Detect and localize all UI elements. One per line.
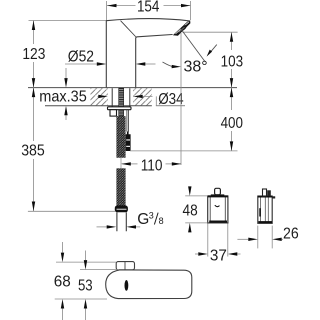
inner panel lines (260, 196, 268, 223)
svg-text:110: 110 (141, 157, 163, 174)
faucet body right edge and spout underside (136, 35, 173, 88)
svg-text:37: 37 (210, 247, 227, 264)
dark dash on left (259, 208, 261, 216)
svg-text:400: 400 (221, 115, 243, 132)
dim line 400 (231, 88, 233, 151)
ext line right (190, 1, 192, 20)
svg-text:53: 53 (78, 278, 93, 295)
svg-text:38°: 38° (184, 58, 208, 75)
38deg diagonal stream line (182, 31, 205, 63)
svg-text:123: 123 (22, 46, 45, 63)
vertical ref line from spout (180, 33, 182, 165)
inner wall lines (210, 197, 225, 223)
plug side rects (263, 189, 267, 196)
svg-text:385: 385 (21, 143, 45, 160)
plug nub (215, 188, 221, 194)
plan main outline (106, 270, 192, 299)
plan sensor oval (125, 280, 129, 291)
head crease line (121, 21, 136, 37)
svg-text:154: 154 (137, 0, 160, 15)
hose break centerline (120, 158, 122, 168)
thick bottom edge (258, 221, 272, 223)
arrowheads 154 (107, 4, 117, 7)
threaded rod below washer (119, 110, 124, 117)
text O34 background (153, 89, 187, 106)
threaded shank in deck (119, 88, 124, 107)
dim line (107, 5, 191, 7)
deck hatch right of hole (133, 88, 152, 105)
svg-text:G: G (137, 211, 149, 228)
thick top edge (258, 196, 272, 198)
plug base (211, 194, 225, 196)
sensor cable (127, 110, 129, 132)
dim line 103 (231, 32, 233, 87)
faucet left edge (105, 21, 107, 88)
hose fitting nut (115, 206, 128, 213)
svg-text:8: 8 (159, 216, 164, 226)
dim line 123 (33, 21, 35, 88)
ext plug level (130, 150, 237, 152)
right tab (272, 196, 275, 198)
cable plug (126, 132, 131, 152)
ext line spout level (182, 31, 237, 33)
braided hose upper (116, 116, 125, 158)
horseshoe washer (108, 107, 132, 110)
ext line left (106, 1, 108, 20)
svg-text:max.35: max.35 (39, 88, 87, 105)
G3/8 thread tube (117, 212, 126, 231)
braided hose lower (116, 168, 125, 205)
mounting bracket (110, 110, 117, 116)
plan spout tab (116, 262, 134, 270)
deck bottom line (45, 105, 152, 107)
spout outlet dark band (173, 21, 191, 36)
svg-text:26: 26 (283, 226, 299, 243)
faucet top edge (106, 19, 189, 21)
svg-text:68: 68 (54, 274, 71, 291)
38deg leader arrow (211, 45, 217, 52)
deck hatch left of hole (91, 88, 108, 105)
svg-text:48: 48 (183, 202, 198, 219)
svg-text:Ø52: Ø52 (68, 49, 94, 66)
inner mark (215, 205, 220, 206)
dim line 385 (33, 88, 35, 211)
shank side lines in hole (112, 88, 130, 107)
arc arrow to vertical (163, 62, 174, 67)
box outline (208, 196, 228, 223)
box outline (258, 196, 272, 223)
svg-text:103: 103 (221, 53, 244, 70)
svg-text:3: 3 (149, 211, 154, 221)
deck top line (28, 87, 237, 89)
thick bottom edge (209, 221, 227, 223)
thick top edge (208, 195, 228, 197)
ext line faucet top level (29, 20, 107, 22)
hose end ref line (28, 210, 115, 212)
